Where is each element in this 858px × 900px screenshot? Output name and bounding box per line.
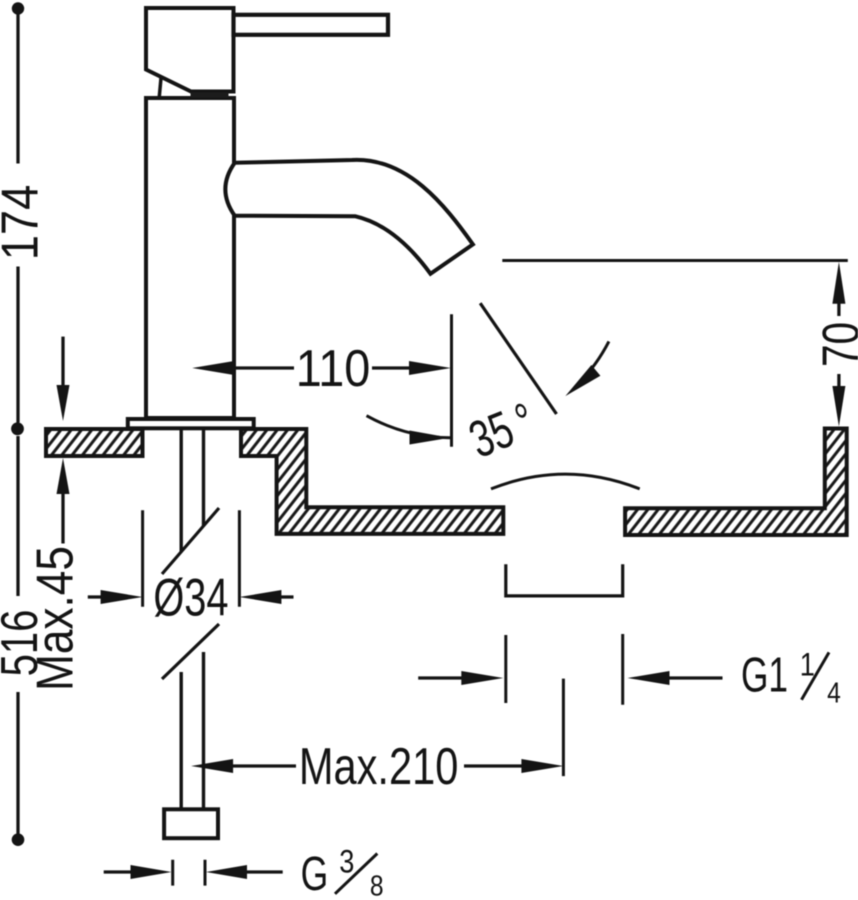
- dimension G1-1/4 extension ticks: [506, 634, 623, 705]
- counter slab left (hatched): [46, 429, 143, 456]
- dimension G3/8 extension ticks: [173, 860, 205, 886]
- supply shank lines: [181, 428, 203, 809]
- G1-1/4 left arrow: [418, 676, 462, 679]
- supply hose connector: [164, 809, 218, 838]
- faucet body: [146, 98, 234, 418]
- spout: [225, 160, 473, 274]
- dimension Max.210 left arrow: [191, 759, 233, 773]
- angle arc lower with arrowhead: [367, 416, 451, 438]
- dimension 70 down arrow: [837, 374, 840, 386]
- base plate: [128, 419, 254, 428]
- svg-text:Ø34: Ø34: [153, 568, 228, 627]
- handle block: [146, 8, 234, 92]
- dimension 174/516 vertical extension line: [16, 14, 19, 834]
- dot endpoint counter level: [11, 422, 24, 435]
- dimension Max.210 right arrow: [464, 764, 522, 767]
- spout height reference line: [502, 259, 848, 262]
- cartridge seam dark bar: [191, 92, 229, 97]
- svg-text:G: G: [301, 847, 329, 900]
- G3/8 right arrow: [206, 865, 247, 879]
- 35 degree inclined line: [480, 303, 556, 414]
- svg-text:4: 4: [827, 676, 841, 708]
- Max.210 extension line at drain axis: [562, 679, 565, 777]
- svg-text:8: 8: [370, 870, 384, 900]
- drain tailpiece bracket: [506, 564, 623, 596]
- svg-text:G1: G1: [741, 648, 788, 703]
- svg-text:3: 3: [339, 844, 354, 880]
- basin drain curve: [491, 474, 640, 489]
- dimension Max.45 down arrow: [61, 337, 64, 387]
- G1-1/4 right arrow: [628, 671, 670, 685]
- svg-text:Max.45: Max.45: [26, 546, 84, 691]
- svg-text:110: 110: [296, 340, 371, 398]
- angle arc upper with arrowhead: [574, 341, 609, 387]
- dimension 110 left arrow: [192, 361, 234, 375]
- break slash upper: [162, 508, 219, 574]
- dimension Max.45 up arrow: [57, 458, 70, 494]
- G3/8 left arrow: [104, 870, 131, 873]
- O34 right arrow: [239, 590, 281, 604]
- dimension 70 up arrow: [832, 262, 845, 304]
- handle lever arm: [234, 15, 389, 35]
- O34 left arrow: [88, 595, 102, 598]
- basin bottom right band and right wall column (hatched): [625, 429, 847, 536]
- stream vertical reference line: [450, 314, 453, 447]
- svg-text:70: 70: [812, 322, 858, 367]
- dot endpoint bottom: [12, 833, 25, 846]
- svg-text:174: 174: [0, 185, 49, 260]
- dimension 110 right arrow: [372, 366, 410, 369]
- svg-text:Max.210: Max.210: [299, 737, 459, 796]
- counter slab right with basin step (hatched): [241, 429, 503, 534]
- handle front tip line: [159, 78, 161, 97]
- dot endpoint top: [12, 2, 24, 14]
- dimension O34 extension ticks: [143, 510, 240, 607]
- break slash lower: [162, 624, 219, 679]
